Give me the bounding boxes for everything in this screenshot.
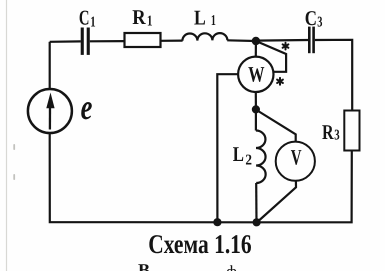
wire source to top-left corner bbox=[49, 42, 51, 89]
faint next-line text fragments bbox=[138, 260, 237, 271]
svg-text:L: L bbox=[233, 142, 244, 166]
wire wattmeter bottom bbox=[255, 92, 257, 107]
node D junction dot bottom-left bbox=[213, 218, 221, 226]
svg-text:3: 3 bbox=[317, 15, 322, 31]
svg-text:e: e bbox=[81, 87, 93, 127]
page edge artifact bbox=[6, 0, 8, 271]
label C1 bbox=[79, 6, 96, 31]
wire node A to wattmeter top bbox=[255, 42, 257, 57]
svg-text:W: W bbox=[248, 61, 264, 86]
wire C3 to top-right corner bbox=[315, 40, 352, 111]
svg-text:L: L bbox=[194, 5, 206, 29]
op-amp W meter circle bbox=[238, 57, 273, 92]
capacitor C1 bbox=[81, 28, 90, 55]
label C3 bbox=[305, 6, 323, 30]
resistor R3 bbox=[344, 111, 359, 151]
wire node B to voltmeter bbox=[257, 110, 296, 142]
label L2 bbox=[233, 142, 252, 169]
node A junction dot bbox=[252, 37, 260, 45]
voltmeter V circle bbox=[276, 142, 315, 181]
label R1 bbox=[132, 5, 152, 30]
inductor L1 bbox=[182, 33, 227, 41]
asterisk top bbox=[283, 43, 289, 50]
source arrow bbox=[46, 93, 54, 130]
svg-text:1: 1 bbox=[90, 15, 95, 31]
wire R3 to bottom-right corner bbox=[257, 151, 352, 223]
wire wattmeter voltage coil bbox=[257, 41, 287, 72]
wire voltmeter to node C bbox=[257, 181, 296, 222]
inductor L2 bbox=[256, 130, 266, 183]
svg-text:2: 2 bbox=[245, 153, 252, 169]
svg-text:C: C bbox=[79, 6, 90, 30]
wire L1 to node A bbox=[227, 39, 256, 42]
wire bottom left bbox=[50, 133, 257, 222]
wire R1 to L1 bbox=[161, 39, 183, 41]
svg-text:R: R bbox=[322, 120, 334, 144]
wire wattmeter left branch bbox=[217, 74, 238, 222]
svg-text:В: В bbox=[138, 260, 150, 271]
svg-text:3: 3 bbox=[334, 128, 339, 144]
svg-text:ф: ф bbox=[226, 262, 237, 271]
svg-text:Схема 1.16: Схема 1.16 bbox=[148, 229, 252, 259]
wire node A to C3 bbox=[256, 39, 308, 42]
capacitor C3 bbox=[308, 27, 315, 54]
svg-text:R: R bbox=[132, 5, 146, 29]
svg-text:1: 1 bbox=[211, 13, 216, 29]
node C junction dot bbox=[253, 218, 261, 226]
wire node B to L2 bbox=[255, 110, 257, 131]
svg-text:C: C bbox=[305, 6, 317, 30]
svg-text:V: V bbox=[291, 145, 302, 170]
asterisk bottom bbox=[277, 78, 283, 85]
resistor R1 bbox=[125, 33, 161, 47]
smudge marks left margin bbox=[13, 144, 15, 180]
label R3 bbox=[322, 120, 340, 144]
node B junction dot below W bbox=[252, 105, 260, 113]
source e circle bbox=[28, 89, 72, 133]
svg-text:1: 1 bbox=[147, 13, 153, 29]
wire top-left horizontal bbox=[50, 40, 81, 43]
wire C1 to R1 bbox=[90, 40, 125, 42]
wire L2 to node C bbox=[255, 183, 257, 222]
label L1 bbox=[194, 5, 216, 29]
